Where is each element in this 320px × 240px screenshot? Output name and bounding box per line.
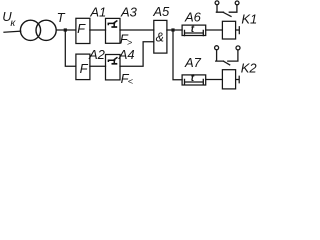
svg-text:<: < — [128, 77, 133, 87]
wire node down to A2 — [65, 31, 76, 66]
wire node to A1 — [67, 29, 76, 31]
svg-text:K1: K1 — [241, 12, 257, 27]
svg-text:F: F — [80, 61, 89, 76]
transformer T winding 2 — [36, 20, 56, 40]
AND gate A5 box — [154, 20, 167, 53]
wire A7 to K2 — [206, 79, 223, 81]
svg-text:T: T — [57, 10, 66, 25]
svg-text:A5: A5 — [152, 4, 170, 19]
threshold symbol in A3 — [108, 21, 117, 28]
wire transformer to node — [56, 29, 64, 31]
threshold A3 box — [106, 18, 121, 43]
wire A3 to A5 — [120, 29, 154, 31]
wire A4 to A5 via riser — [120, 42, 154, 67]
wire A6 to K1 — [206, 29, 223, 31]
wire node down to A7 — [173, 31, 182, 80]
svg-text:K2: K2 — [241, 60, 258, 75]
threshold symbol in A4 — [108, 57, 117, 64]
timer A7 symbol — [185, 79, 204, 84]
svg-text:A4: A4 — [118, 47, 135, 62]
transformer T winding 1 — [20, 20, 40, 40]
wire A2 to A4 — [90, 65, 106, 67]
wire A1 to A3 — [90, 29, 106, 31]
K2 right terminal stub — [236, 76, 240, 83]
timer A6 symbol — [185, 30, 204, 35]
contact K1 — [215, 1, 219, 5]
wire input Uk — [4, 31, 21, 32]
timer A7 box — [182, 75, 206, 85]
svg-text:A1: A1 — [89, 4, 106, 19]
filter A2 box — [76, 54, 90, 80]
node J1 junction — [64, 28, 67, 31]
relay coil K2 box — [222, 70, 235, 89]
wire A5 to A6 — [167, 29, 182, 31]
svg-text:A6: A6 — [184, 10, 202, 25]
threshold A4 box — [106, 55, 121, 80]
node J2 junction — [171, 28, 174, 31]
svg-text:A7: A7 — [184, 55, 202, 70]
svg-text:&: & — [156, 30, 164, 44]
svg-text:F: F — [77, 21, 86, 36]
contact K2 — [215, 46, 219, 50]
timer A6 box — [182, 25, 206, 35]
K1 right terminal stub — [236, 27, 240, 34]
svg-text:>: > — [127, 37, 132, 47]
svg-text:A2: A2 — [88, 47, 106, 62]
svg-text:A3: A3 — [120, 4, 138, 19]
relay coil K1 box — [222, 21, 235, 39]
filter A1 box — [76, 18, 90, 43]
